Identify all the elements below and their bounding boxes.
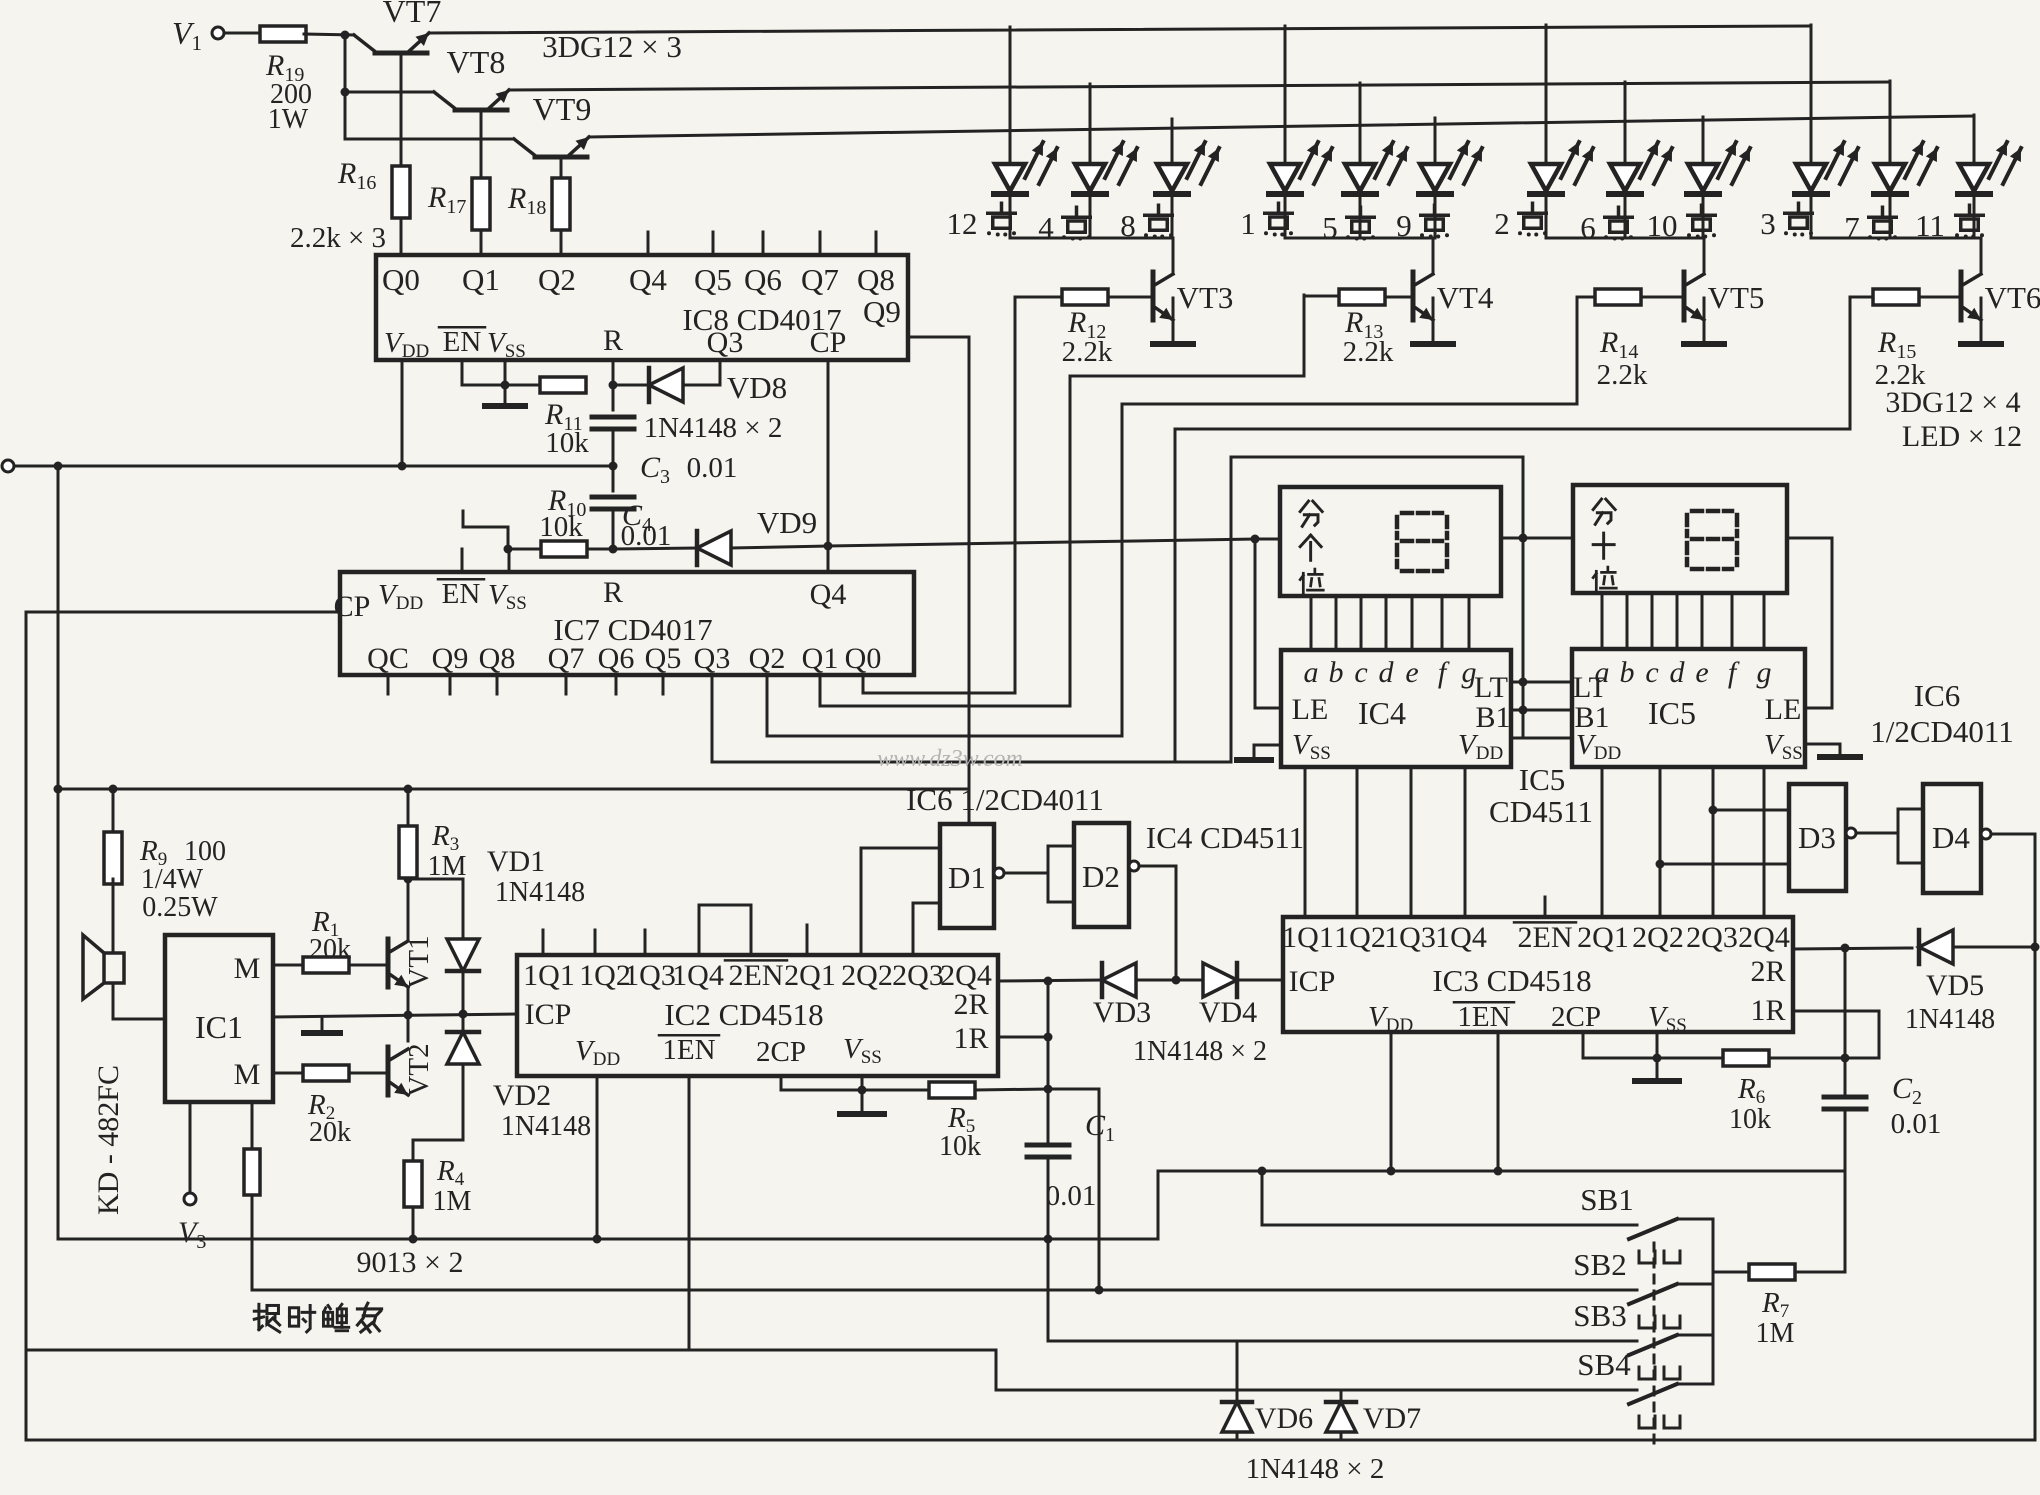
resistor R9 [112,789,115,837]
svg-text:Q2: Q2 [538,262,576,297]
wire R18 to IC8 Q2 [560,230,563,255]
svg-text:4: 4 [1038,210,1054,245]
wire R16 to IC8 Q0 [400,218,403,255]
wire LED group cathode join [1010,237,1173,240]
wire LE line into display1 [1255,538,1280,541]
wire R19 to transistor bases [304,34,354,35]
pin IC2 VSS stub [861,1076,864,1090]
wire collector to LED group [1172,238,1175,274]
transistor VT7 [375,51,427,56]
svg-text:20k: 20k [309,934,351,965]
pin IC3 2CP stub [1583,1032,1724,1058]
svg-text:VT3: VT3 [1177,280,1234,315]
svg-text:VD5: VD5 [1926,969,1984,1002]
svg-text:Q8: Q8 [479,642,516,675]
wire R6 to C2 node [1769,1057,1879,1060]
wire IC4 B1 to IC5 B1 [1511,709,1572,712]
svg-text:ICP: ICP [525,998,572,1031]
wire to VT8 base [345,91,434,94]
pin IC8 Q9 wire [908,337,969,824]
svg-text:IC4: IC4 [1358,695,1406,731]
LED 7点 [1889,81,1892,164]
resistor R15 [1873,289,1919,305]
wire IC7 CP to left rail [26,611,340,614]
svg-text:Q9: Q9 [863,294,901,329]
svg-text:Q2: Q2 [749,642,786,675]
LED 2点 [1545,25,1548,164]
LED 5点 [1359,83,1362,164]
svg-text:VT5: VT5 [1708,280,1765,315]
wire 1R right [998,1036,1048,1039]
svg-text:Q3: Q3 [707,326,744,359]
wire R4 to rail [412,1207,415,1239]
capacitor C1 [1027,1143,1069,1148]
pin IC2 1EN stub [688,1076,691,1350]
pin IC3 VSS stub [1656,1032,1659,1058]
wire R2 to VT2 base [349,1072,388,1075]
svg-text:2R: 2R [953,988,988,1021]
wire D1 out to D2 inputs [1004,872,1048,875]
LED 1点 [1284,26,1287,164]
svg-text:IC6 1/2CD4011: IC6 1/2CD4011 [906,782,1104,817]
label 报时触发 [254,1304,279,1332]
resistor R12 [1062,289,1108,305]
resistor R3 [407,789,410,825]
svg-text:g: g [1757,656,1772,689]
diode VD3 [1102,963,1136,997]
svg-text:D4: D4 [1932,820,1970,855]
svg-text:Q0: Q0 [845,642,882,675]
diode VD8 [613,384,649,387]
svg-text:1Q4: 1Q4 [1435,921,1487,954]
resistor R14 [1595,289,1641,305]
svg-text:10k: 10k [539,511,583,543]
wire common to R7 [1713,1271,1749,1274]
diode VD6 [1236,1341,1239,1440]
LED 9点 [1434,118,1437,164]
diode VD2 [462,1014,465,1031]
svg-text:LE: LE [1292,693,1329,726]
svg-text:Q6: Q6 [598,642,635,675]
svg-text:e: e [1695,656,1708,689]
svg-text:1M: 1M [1756,1318,1795,1349]
wire collector to LED group [1980,238,1983,274]
wire D2 out down to clock line [1139,866,1176,980]
node R junction [609,381,618,390]
wire D3 out to D4 inputs [1856,832,1898,835]
wire LED bus 1 [429,26,1811,33]
ground IC2 VSS [861,1090,864,1111]
svg-text:1Q3: 1Q3 [624,959,676,992]
svg-text:Q5: Q5 [645,642,682,675]
wire LED group cathode join [1285,237,1433,240]
svg-text:SB3: SB3 [1573,1298,1626,1333]
svg-text:a: a [1304,656,1319,689]
svg-text:SB4: SB4 [1577,1347,1631,1382]
svg-text:EN: EN [442,578,481,610]
svg-text:0.01: 0.01 [1046,1180,1097,1212]
svg-text:10k: 10k [939,1131,981,1162]
wire IC1 M1 to R1 [273,964,303,967]
IC IC2 CD4518 [517,955,998,1076]
svg-text:KD - 482FC: KD - 482FC [92,1065,125,1215]
svg-text:SB2: SB2 [1573,1247,1626,1282]
svg-text:VT1: VT1 [403,935,435,988]
wire SB4 row [27,1350,1637,1390]
svg-text:VT7: VT7 [383,0,442,29]
wire V1 to R19 [224,32,262,35]
svg-text:IC2 CD4518: IC2 CD4518 [664,997,823,1032]
svg-text:2Q4: 2Q4 [1738,921,1790,954]
IC IC1 KD-482FC [165,935,273,1102]
svg-text:1Q3: 1Q3 [1384,921,1436,954]
svg-text:ICP: ICP [1289,965,1336,998]
svg-text:VD7: VD7 [1363,1402,1421,1435]
wire IC4 LE left [1255,707,1281,710]
wire R13 left [1304,295,1339,298]
IC IC8 CD4017 [376,255,908,360]
wire top rail IC1 region [58,788,969,791]
svg-text:VD2: VD2 [493,1079,551,1112]
svg-text:Q4: Q4 [629,262,667,297]
wire SB3 row [1048,1340,1637,1343]
svg-text:IC6: IC6 [1914,678,1961,713]
svg-text:d: d [1670,656,1686,689]
svg-text:1R: 1R [1750,994,1785,1027]
svg-text:B1: B1 [1475,701,1510,734]
resistor R4 [404,1161,422,1207]
svg-text:QC: QC [367,642,409,675]
resistor R16 [400,53,403,166]
wire VSS ground line [781,1089,929,1092]
svg-text:Q8: Q8 [857,262,895,297]
wire IC4 VDD to IC5 VDD [1511,737,1572,740]
wire D3 input from 2Q3 [1713,809,1789,812]
svg-text:R: R [603,576,623,609]
svg-text:2: 2 [1494,206,1510,241]
svg-text:Q3: Q3 [694,642,731,675]
wire LED bus 2 [509,82,1890,90]
switch gang dashed link [1653,1243,1656,1450]
svg-text:6: 6 [1580,210,1596,245]
capacitor C4 [592,495,634,500]
wire R5 node to SB2 line [1048,1089,1099,1290]
wire IC7 Q0 to R12 column [863,297,1015,693]
wire main rail L2 [58,1238,1158,1241]
svg-text:VD8: VD8 [727,370,787,405]
svg-text:2CP: 2CP [756,1036,806,1068]
LED 12点 [1009,27,1012,164]
wire IC1 mid to ICP [273,1014,517,1017]
pin IC1 V3 [189,1102,192,1193]
ground IC1 mid [321,1017,324,1031]
transistor VT3 [1108,296,1153,299]
wire IC3 1R right [1793,1011,1879,1058]
svg-text:M: M [234,1058,261,1091]
svg-text:0.01: 0.01 [687,452,738,484]
resistor R11 [540,377,586,393]
svg-text:1: 1 [1240,206,1256,241]
svg-text:CD4511: CD4511 [1489,794,1593,829]
wire IC7 Q1 nest [820,295,1304,706]
wire 2Q4 2R to VD3 [998,980,1102,981]
svg-text:c: c [1354,656,1367,689]
svg-text:12: 12 [947,206,978,241]
wire R14 left [1577,296,1595,299]
svg-text:2Q1: 2Q1 [784,959,836,992]
wire rail jog up [1158,1171,1845,1239]
ground emitter VT4 [1432,298,1435,341]
resistor R1 [303,957,349,973]
wire display1-display2 common [1501,537,1573,540]
svg-text:IC5: IC5 [1648,695,1696,731]
svg-text:2.2k: 2.2k [1597,359,1648,391]
pin stubs IC2 top [542,930,545,955]
pin IC8 VDD stub [401,360,404,466]
svg-text:2Q3: 2Q3 [1686,921,1738,954]
svg-text:20k: 20k [309,1117,351,1148]
wire nest to R15 [1175,297,1850,762]
svg-text:Q9: Q9 [432,642,469,675]
svg-text:1Q1: 1Q1 [1282,921,1334,954]
transistor VT1 [386,939,391,987]
svg-text:Q5: Q5 [694,262,732,297]
svg-text:VD6: VD6 [1255,1402,1313,1435]
svg-text:2R: 2R [1750,955,1785,988]
transistor VT4 [1385,296,1413,299]
wire D3 input from 2Q2 [1660,863,1789,866]
wire LED group cathode join [1546,237,1704,240]
ground emitter VT6 [1980,298,1983,341]
svg-text:2.2k × 3: 2.2k × 3 [290,222,386,254]
switch SB2 [1629,1284,1677,1304]
svg-text:1M: 1M [428,851,467,882]
wire VT1 collector to R3 [407,879,410,940]
wire base bus vertical [344,35,347,139]
svg-text:IC5: IC5 [1519,762,1566,797]
svg-text:2Q2: 2Q2 [1632,921,1684,954]
wire IC8 CP to IC7 Q4 [827,360,830,572]
svg-text:Q6: Q6 [744,262,782,297]
svg-text:VD9: VD9 [757,505,817,540]
svg-text:Q7: Q7 [548,642,585,675]
svg-text:1N4148 × 2: 1N4148 × 2 [1133,1036,1267,1067]
wire left rail to C3 [11,465,613,468]
svg-text:1EN: 1EN [662,1034,715,1066]
node input terminal [2,460,14,472]
wire IC2 2Q2 to D1 [861,848,940,955]
svg-text:IC3 CD4518: IC3 CD4518 [1432,963,1591,998]
wire SB2 row 报时触发 line [252,1289,1637,1292]
wire EN-VSS junction IC7 [463,511,508,549]
svg-text:VT9: VT9 [533,91,592,127]
svg-text:1Q2: 1Q2 [1334,921,1386,954]
resistor R18 [560,157,563,181]
ground emitter VT3 [1172,298,1175,341]
svg-text:2EN: 2EN [729,959,784,992]
ground IC3 VSS [1656,1058,1659,1078]
svg-text:1N4148 × 2: 1N4148 × 2 [644,412,783,444]
svg-text:VD4: VD4 [1199,996,1257,1029]
switch SB1 [1629,1219,1677,1239]
svg-text:CP: CP [334,590,371,623]
svg-text:Q7: Q7 [801,262,839,297]
wire R5 to C1 node [975,1089,1048,1090]
wire VD9 to IC4 LE [828,539,1255,546]
svg-text:LED × 12: LED × 12 [1902,420,2022,453]
svg-text:1N4148: 1N4148 [501,1111,591,1142]
wire VT1 emitter node [407,988,410,1041]
wire speaker to IC1 [113,983,165,1019]
pin IC3 1EN stub [1497,1032,1500,1171]
wire switch common [1712,1219,1715,1384]
pin IC2 VDD stub [596,1076,599,1239]
svg-text:1/2CD4011: 1/2CD4011 [1870,714,2014,749]
capacitor C3 [612,385,615,410]
resistor R13 [1339,289,1385,305]
wire R15 left [1850,296,1873,299]
svg-text:1Q2: 1Q2 [579,959,631,992]
svg-text:2EN: 2EN [1518,921,1573,954]
wire collector to LED group [1703,238,1706,274]
ground IC4 VSS [1254,745,1281,757]
pin IC7 VSS stub [508,550,511,572]
speaker BL [112,879,115,953]
svg-text:9: 9 [1396,208,1412,243]
LED 8点 [1171,119,1174,164]
diode VD5 [1919,930,1953,964]
ground emitter VT5 [1703,298,1706,341]
transistor VT8 [455,108,507,113]
svg-text:b: b [1329,656,1344,689]
svg-text:LT: LT [1573,671,1607,704]
capacitor C2 [1844,948,1847,1093]
LED 4点 [1089,84,1092,164]
svg-text:D1: D1 [948,860,986,895]
resistor R10 [541,541,587,557]
transistor VT9 [535,155,587,160]
svg-text:VD1: VD1 [487,845,545,878]
IC IC5 CD4511 [1572,649,1805,767]
diode VD7 [1340,1390,1343,1440]
svg-text:IC1: IC1 [195,1009,243,1045]
pin IC8 Q3 stub [719,360,722,385]
wire R12 left [1015,296,1062,299]
svg-text:D2: D2 [1082,859,1120,894]
svg-text:IC4 CD4511: IC4 CD4511 [1146,820,1304,855]
gate D4 [1923,784,1981,893]
pin stubs IC8 top Q4-Q8 [647,232,650,255]
svg-text:1N4148: 1N4148 [495,877,585,908]
transistor VT2 [386,1047,391,1095]
svg-text:5: 5 [1322,210,1338,245]
svg-text:11: 11 [1915,208,1945,243]
wire to VT9 base [345,138,514,141]
svg-text:2.2k: 2.2k [1062,336,1113,368]
wire IC7 Q2 nest [767,297,1577,736]
wire SB1 row [1262,1171,1637,1225]
resistor R19 [260,26,306,42]
switch SB3 [1629,1335,1677,1355]
diode VD9 [613,548,697,549]
IC IC4 CD4511 [1281,650,1511,767]
IC IC3 CD4518 [1283,917,1793,1032]
ground IC5 VSS [1805,744,1840,754]
svg-text:2Q3: 2Q3 [892,959,944,992]
svg-text:2Q2: 2Q2 [841,959,893,992]
node V1 terminal [212,27,224,39]
svg-text:VT4: VT4 [1437,280,1494,315]
svg-text:LT: LT [1474,671,1508,704]
ground below IC8 VSS [504,385,507,404]
svg-text:d: d [1379,656,1395,689]
svg-text:D3: D3 [1798,820,1836,855]
transistor VT5 [1641,296,1684,299]
svg-text:2Q1: 2Q1 [1577,921,1629,954]
resistor IC1 osc [244,1149,260,1195]
wire VT2 emitter to R4 [413,1099,463,1161]
svg-text:9013 × 2: 9013 × 2 [357,1246,464,1279]
LED 6点 [1624,82,1627,164]
switch SB4 [1629,1384,1677,1404]
pin IC3 VDD stub [1390,1032,1393,1171]
wire display2 right to IC5 LE [1787,538,1832,708]
wire R7 to C2 column [1795,1271,1845,1274]
pin stubs display2 to IC5 [1601,593,1604,649]
pin stubs IC7 bottom unconnected [387,675,390,694]
resistor R2 [303,1065,349,1081]
svg-text:10k: 10k [545,427,589,459]
resistor R17 [480,110,483,182]
wire IC1 M2 to R2 [273,1072,305,1075]
pin IC3 2EN stub [1544,897,1547,917]
svg-text:10: 10 [1647,208,1678,243]
svg-text:10k: 10k [1729,1104,1771,1135]
wire IC3 2R to VD5 [1793,948,1912,949]
svg-text:2.2k: 2.2k [1343,336,1394,368]
wire D4 out down to VD5 [1991,834,2035,1440]
wire R1 to VT1 base [349,964,388,967]
transistor VT6 [1919,296,1961,299]
resistor R7 [1749,1264,1795,1280]
wire EN-VSS-R11 [462,384,540,387]
svg-text:www.dz3w.com: www.dz3w.com [877,746,1023,772]
svg-text:1EN: 1EN [1457,1001,1510,1033]
svg-text:Q4: Q4 [810,578,847,611]
svg-text:1Q4: 1Q4 [672,959,724,992]
svg-text:1R: 1R [953,1022,988,1055]
wire LED bus 3 [589,116,1974,137]
diode VD1 [408,878,463,881]
wire IC5 outputs to IC3 2Q pins [1601,767,1604,917]
wire C1 column [1047,981,1050,1141]
IC IC7 CD4017 [340,572,914,675]
svg-text:M: M [234,952,261,985]
svg-text:2CP: 2CP [1551,1001,1601,1033]
wire LT B1 column [1519,678,1528,687]
display DS1 分个位 [1280,487,1501,596]
wire bottom frame [27,1439,2035,1442]
svg-text:e: e [1405,656,1418,689]
LED 3点 [1810,25,1813,164]
wire R17 to IC8 Q1 [480,230,483,255]
pin IC2 2CP stub [780,1076,783,1090]
svg-text:LE: LE [1765,693,1802,726]
wire LE drop [1254,539,1257,708]
pin IC8 R stub [612,360,615,385]
svg-text:Q0: Q0 [382,262,420,297]
svg-text:1Q1: 1Q1 [523,959,575,992]
